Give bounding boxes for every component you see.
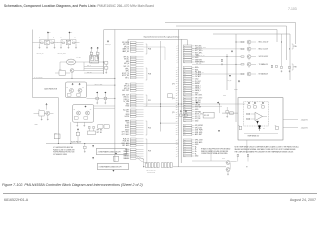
svg-text:USB_D+: USB_D+ xyxy=(123,97,129,99)
svg-text:41: 41 xyxy=(184,146,186,148)
svg-text:14: 14 xyxy=(184,78,186,80)
svg-text:UNSW_B+: UNSW_B+ xyxy=(105,44,111,46)
transistor cell Q1 xyxy=(47,32,49,34)
svg-text:USB_D-: USB_D- xyxy=(124,99,130,101)
wires out of temp box xyxy=(283,119,298,121)
svg-text:43: 43 xyxy=(176,151,178,153)
svg-text:28: 28 xyxy=(176,111,178,113)
svg-text:37: 37 xyxy=(176,134,178,136)
svg-text:1: 1 xyxy=(176,46,177,48)
svg-text:15: 15 xyxy=(176,81,178,83)
svg-text:Q8: Q8 xyxy=(74,109,76,111)
svg-text:Q6: Q6 xyxy=(66,86,68,88)
svg-text:23: 23 xyxy=(184,100,186,102)
svg-text:5: 5 xyxy=(176,55,177,57)
svg-text:19: 19 xyxy=(176,90,178,92)
junction dots xyxy=(113,77,116,80)
svg-text:37: 37 xyxy=(184,134,186,136)
svg-text:EXT_SPK+: EXT_SPK+ xyxy=(195,50,203,52)
svg-text:OPT_SEL2: OPT_SEL2 xyxy=(122,134,130,136)
svg-text:IF RADIO IS EQUIPPED WITH OPTI: IF RADIO IS EQUIPPED WITH OPTION BOARD xyxy=(201,148,230,151)
svg-text:38: 38 xyxy=(176,140,178,142)
svg-text:BUS-: BUS- xyxy=(195,69,199,71)
svg-text:VSTBY: VSTBY xyxy=(34,124,38,126)
svg-text:8: 8 xyxy=(184,62,185,64)
svg-text:3: 3 xyxy=(176,50,177,52)
svg-text:SPK_COM: SPK_COM xyxy=(195,140,203,142)
svg-text:38: 38 xyxy=(184,139,186,141)
svg-text:SPI_MOSI2: SPI_MOSI2 xyxy=(195,125,203,127)
svg-text:→ J2-14 TS: → J2-14 TS xyxy=(300,119,308,121)
power flag inside box xyxy=(107,41,109,43)
svg-text:24: 24 xyxy=(184,102,186,104)
svg-text:14: 14 xyxy=(176,79,178,81)
svg-text:RSSI: RSSI xyxy=(126,106,130,108)
svg-text:32: 32 xyxy=(176,121,178,123)
svg-text:EMER: EMER xyxy=(125,120,130,122)
svg-text:13: 13 xyxy=(176,76,178,78)
wire from box1 right xyxy=(87,84,115,86)
svg-text:44: 44 xyxy=(184,153,186,155)
component stack inside box edge xyxy=(105,62,108,65)
svg-text:24: 24 xyxy=(176,102,178,104)
vertical resistors above q pair xyxy=(237,154,238,157)
svg-text:MIC_HI: MIC_HI xyxy=(124,63,130,65)
svg-text:4.7 OHM RESISTORS MUST BE: 4.7 OHM RESISTORS MUST BE xyxy=(53,147,73,149)
svg-text:15: 15 xyxy=(184,81,186,83)
transistor Q11 xyxy=(241,48,244,49)
svg-text:AUD_SW_IN: AUD_SW_IN xyxy=(36,52,43,55)
wire: top bus B xyxy=(176,25,287,27)
svg-text:21: 21 xyxy=(184,95,186,97)
wire into temp box xyxy=(222,112,238,114)
capacitor with flag xyxy=(97,47,99,49)
svg-text:NOTE: TEMP SENSE CIRCUIT COMPO: NOTE: TEMP SENSE CIRCUIT COMPONENTS ARE … xyxy=(235,146,300,149)
svg-text:36: 36 xyxy=(176,132,178,134)
svg-text:28: 28 xyxy=(184,111,186,113)
svg-text:SPI_CLK2: SPI_CLK2 xyxy=(195,127,202,129)
svg-text:← TX DATA 0-5V: ← TX DATA 0-5V xyxy=(257,63,268,66)
svg-text:18: 18 xyxy=(184,88,186,90)
box: right interface section xyxy=(213,33,290,35)
svg-text:P2A: P2A xyxy=(294,45,297,48)
wire stub xyxy=(102,62,104,74)
svg-text:12: 12 xyxy=(184,74,186,76)
svg-text:44: 44 xyxy=(176,153,178,155)
svg-text:34: 34 xyxy=(176,127,178,129)
svg-text:SPI_CS: SPI_CS xyxy=(124,46,129,48)
svg-text:R: R xyxy=(72,40,73,42)
wire from q pair up xyxy=(246,141,248,153)
svg-text:R: R xyxy=(62,40,63,42)
svg-text:SPI_CLK: SPI_CLK xyxy=(123,44,129,46)
transistor Q14 low xyxy=(241,73,244,74)
svg-text:33: 33 xyxy=(176,125,178,127)
box: universal connector section left edge xyxy=(102,30,104,75)
svg-text:R1: R1 xyxy=(247,104,249,106)
svg-text:Expansion/Universal Connector: Expansion/Universal Connector B+ supply … xyxy=(144,36,180,39)
svg-text:42: 42 xyxy=(184,149,186,151)
svg-text:Q7: Q7 xyxy=(82,86,84,88)
svg-text:17: 17 xyxy=(184,85,186,87)
svg-text:P2B: P2B xyxy=(148,74,151,76)
svg-text:GND: GND xyxy=(195,156,199,158)
svg-text:FL1: FL1 xyxy=(54,132,56,134)
svg-text:GND: GND xyxy=(195,57,199,59)
svg-text:← SCI RX 0-3.3V: ← SCI RX 0-3.3V xyxy=(257,56,268,58)
svg-text:P2C: P2C xyxy=(148,100,151,102)
svg-text:P2D: P2D xyxy=(148,128,151,130)
svg-text:SW_B+: SW_B+ xyxy=(124,59,129,61)
option box 2 xyxy=(92,157,94,159)
component with flag mid xyxy=(77,129,79,131)
capacitor below long line xyxy=(84,144,86,147)
mid flags low xyxy=(196,102,198,104)
small resistor mid j2 xyxy=(221,59,222,62)
svg-text:GND: GND xyxy=(223,95,226,97)
svg-text:C: C xyxy=(96,51,97,53)
svg-text:9: 9 xyxy=(184,67,185,69)
svg-text:30: 30 xyxy=(176,116,178,118)
svg-text:17: 17 xyxy=(176,85,178,87)
resistors bottom xyxy=(239,126,242,129)
bracket labels xyxy=(146,44,148,54)
svg-text:VIP_IN2: VIP_IN2 xyxy=(195,102,201,104)
svg-text:45: 45 xyxy=(176,156,178,158)
J2 right vertical wires xyxy=(226,54,228,90)
cap mid right xyxy=(226,107,228,111)
svg-text:2: 2 xyxy=(176,48,177,50)
wires from box2 to rail xyxy=(94,105,115,107)
svg-text:23: 23 xyxy=(176,100,178,102)
svg-text:34: 34 xyxy=(184,127,186,129)
svg-text:BOOT_RX: BOOT_RX xyxy=(122,75,129,77)
ground flag lower right xyxy=(238,80,240,82)
svg-text:5V_USB: 5V_USB xyxy=(123,101,129,103)
svg-text:← BUS+ 3.3-5.0V: ← BUS+ 3.3-5.0V xyxy=(257,42,269,44)
svg-text:22: 22 xyxy=(176,98,178,100)
svg-text:41: 41 xyxy=(176,146,178,148)
svg-text:22: 22 xyxy=(184,97,186,99)
svg-text:BOOT_TX: BOOT_TX xyxy=(122,73,129,75)
bracket P2 top right xyxy=(292,44,294,49)
svg-text:USB_PWR: USB_PWR xyxy=(195,130,203,132)
box: audio PA stage 2 xyxy=(73,105,94,123)
resistors top xyxy=(248,102,250,104)
svg-text:32: 32 xyxy=(184,120,186,122)
svg-text:TP401 TP402: TP401 TP402 xyxy=(147,172,155,174)
svg-text:PA_EN: PA_EN xyxy=(77,56,81,59)
inner dashed box xyxy=(244,102,269,126)
svg-text:R: R xyxy=(51,40,52,42)
svg-text:35: 35 xyxy=(184,130,186,132)
svg-text:P2A: P2A xyxy=(148,48,151,51)
svg-text:16: 16 xyxy=(176,83,178,85)
flags near J2 rail xyxy=(180,110,182,112)
svg-text:OPT_EN: OPT_EN xyxy=(97,132,102,134)
transistor Q5 xyxy=(70,69,74,73)
svg-text:← RX DATA 0-5V: ← RX DATA 0-5V xyxy=(257,73,268,76)
svg-text:40: 40 xyxy=(176,144,178,146)
svg-text:13: 13 xyxy=(184,76,186,78)
svg-text:AUDIO_PA_OUT: AUDIO_PA_OUT xyxy=(71,141,81,144)
svg-text:PA_5V_DRIVE: PA_5V_DRIVE xyxy=(34,75,42,78)
svg-text:JU1 JU2: JU1 JU2 xyxy=(204,115,209,117)
svg-text:9: 9 xyxy=(176,67,177,69)
svg-text:C: C xyxy=(90,51,91,53)
svg-text:R10: R10 xyxy=(59,69,62,71)
svg-text:10: 10 xyxy=(176,69,178,71)
svg-text:AUD_SW_OUT: AUD_SW_OUT xyxy=(57,52,66,55)
svg-text:9V3_SW: 9V3_SW xyxy=(195,107,202,109)
svg-text:18: 18 xyxy=(176,88,178,90)
svg-text:R: R xyxy=(40,40,41,42)
interconnect wires left xyxy=(84,66,103,68)
svg-text:35: 35 xyxy=(176,130,178,132)
svg-text:11: 11 xyxy=(176,72,178,74)
wire: bottom long wire xyxy=(46,143,179,145)
svg-text:36: 36 xyxy=(184,132,186,134)
box: audio PA stage 1 xyxy=(66,82,87,98)
svg-text:PL_DET: PL_DET xyxy=(195,81,201,83)
svg-text:7: 7 xyxy=(176,59,177,61)
svg-text:SQ_DET: SQ_DET xyxy=(123,109,129,111)
svg-text:GP2_IN: GP2_IN xyxy=(124,88,129,90)
wire: top bus C xyxy=(104,29,277,31)
svg-text:GP3_OUT: GP3_OUT xyxy=(122,90,129,92)
connector J2 rails xyxy=(178,30,180,168)
svg-text:MIC_HI: MIC_HI xyxy=(87,65,92,67)
svg-text:C: C xyxy=(61,36,62,38)
transistor Q12 xyxy=(241,56,244,57)
svg-text:IGNITION: IGNITION xyxy=(195,59,202,61)
svg-text:VIP_IN1: VIP_IN1 xyxy=(195,100,201,102)
wire web center xyxy=(160,41,162,132)
svg-text:GND: GND xyxy=(195,144,199,146)
svg-text:11: 11 xyxy=(184,72,186,74)
svg-text:30: 30 xyxy=(184,116,186,118)
svg-text:BUS+: BUS+ xyxy=(195,67,199,69)
svg-text:← BUS- 3.3-5.0V: ← BUS- 3.3-5.0V xyxy=(257,49,268,51)
resistor pack row xyxy=(146,163,148,168)
svg-text:EXT_SPK-: EXT_SPK- xyxy=(195,52,203,54)
svg-text:}P5: }P5 xyxy=(172,112,174,114)
svg-text:4 OHM SPEAKER CONNECTION OPT: 4 OHM SPEAKER CONNECTION OPT xyxy=(98,150,121,153)
svg-text:5V: 5V xyxy=(49,32,51,34)
svg-text:B+: B+ xyxy=(195,151,197,153)
svg-text:D2: D2 xyxy=(263,127,265,129)
svg-text:C: C xyxy=(39,36,40,38)
svg-text:P2E: P2E xyxy=(148,151,151,153)
svg-text:6: 6 xyxy=(176,57,177,59)
box right of flags xyxy=(203,112,214,118)
svg-text:20: 20 xyxy=(184,92,186,94)
wire loop below oval xyxy=(59,62,61,70)
svg-text:GND: GND xyxy=(195,121,199,123)
svg-text:16: 16 xyxy=(184,83,186,85)
svg-text:20: 20 xyxy=(176,92,178,94)
box on left rail xyxy=(54,134,60,139)
svg-text:IGN: IGN xyxy=(127,123,130,125)
svg-text:3: 3 xyxy=(184,50,185,52)
svg-text:Q9: Q9 xyxy=(90,109,92,111)
svg-text:SCI_TX: SCI_TX xyxy=(195,116,200,118)
box pair top xyxy=(98,125,103,128)
wire: top bus A xyxy=(165,22,296,24)
box: temperature sense xyxy=(238,98,283,140)
regulator sub-circuit U4 xyxy=(46,104,48,106)
wire to resistor packs xyxy=(143,159,145,167)
wires around q pair xyxy=(192,160,226,162)
svg-text:SPI_MOSI: SPI_MOSI xyxy=(122,42,130,44)
svg-text:FLAT_TX: FLAT_TX xyxy=(123,137,129,140)
svg-text:4: 4 xyxy=(184,52,185,54)
svg-text:GP4_OUT: GP4_OUT xyxy=(122,94,129,96)
svg-text:SCI_TXD: SCI_TXD xyxy=(196,63,201,65)
svg-text:26: 26 xyxy=(184,107,186,109)
svg-text:Q410: Q410 xyxy=(222,158,225,160)
svg-text:R4: R4 xyxy=(238,125,240,127)
svg-text:GND2: GND2 xyxy=(125,129,129,131)
transistor Q13 xyxy=(241,64,244,65)
svg-text:25: 25 xyxy=(184,104,186,106)
svg-text:GND: GND xyxy=(126,103,130,105)
svg-text:31: 31 xyxy=(184,118,186,120)
resistor block R10 xyxy=(59,71,66,76)
small component between option boxes xyxy=(115,153,117,155)
pull resistors right xyxy=(271,65,272,68)
svg-text:29: 29 xyxy=(184,114,186,116)
svg-text:19: 19 xyxy=(184,90,186,92)
wire: left rail xyxy=(32,30,34,98)
svg-text:33: 33 xyxy=(184,125,186,127)
svg-text:DGND: DGND xyxy=(234,89,238,91)
svg-text:470 470 470 470: 470 470 470 470 xyxy=(146,169,156,171)
svg-text:4: 4 xyxy=(176,52,177,54)
svg-text:USB_GND: USB_GND xyxy=(195,132,203,134)
svg-text:MIC_LO: MIC_LO xyxy=(124,66,130,68)
svg-text:7: 7 xyxy=(184,59,185,61)
svg-text:SW_B+: SW_B+ xyxy=(228,80,233,82)
svg-text:10: 10 xyxy=(184,69,186,71)
svg-text:B-: B- xyxy=(195,153,197,155)
svg-text:GND: GND xyxy=(195,92,199,94)
svg-text:RESET: RESET xyxy=(195,83,200,85)
svg-text:R5: R5 xyxy=(275,125,277,127)
svg-text:27: 27 xyxy=(184,109,186,111)
connector P1 rail xyxy=(114,30,116,163)
transistor cell Q2 xyxy=(69,32,71,34)
svg-text:R3: R3 xyxy=(261,104,263,106)
wire: PA drive line xyxy=(33,77,115,79)
svg-text:40: 40 xyxy=(184,144,186,146)
svg-text:BOOT_CTL: BOOT_CTL xyxy=(195,114,203,116)
option box 1 xyxy=(92,145,94,147)
vertical resistor pair xyxy=(89,126,90,129)
wires below box2 xyxy=(76,122,78,124)
svg-text:VIP_1: VIP_1 xyxy=(125,77,129,79)
transistor Q21 xyxy=(226,168,230,172)
svg-text:31: 31 xyxy=(176,118,178,120)
svg-text:OPT_SEL1: OPT_SEL1 xyxy=(122,132,130,134)
svg-text:SCI_RX: SCI_RX xyxy=(195,118,200,120)
svg-text:43: 43 xyxy=(184,151,186,153)
capacitor C10 xyxy=(96,92,98,94)
svg-text:21: 21 xyxy=(176,95,178,97)
svg-text:42: 42 xyxy=(176,149,178,151)
capacitor C11 xyxy=(105,92,107,94)
svg-text:}P3: }P3 xyxy=(172,84,174,86)
svg-text:FOR PROPER ESD PROTECTION: FOR PROPER ESD PROTECTION xyxy=(53,152,74,154)
small box mid xyxy=(168,94,173,98)
svg-text:VIP_OUT1: VIP_OUT1 xyxy=(195,95,202,97)
svg-text:39: 39 xyxy=(184,142,186,144)
svg-text:C: C xyxy=(75,36,76,38)
svg-text:5V_SW: 5V_SW xyxy=(195,104,201,106)
svg-text:GND: GND xyxy=(126,61,130,63)
diode D2 xyxy=(258,125,261,131)
svg-text:45: 45 xyxy=(184,156,186,158)
svg-text:26: 26 xyxy=(176,107,178,109)
flag on J2 right xyxy=(229,75,231,77)
svg-text:8 OHM SPEAKER CONNECTION OPT: 8 OHM SPEAKER CONNECTION OPT xyxy=(99,165,122,168)
transistor Q10 xyxy=(241,41,244,42)
svg-text:AUDIO PA SECTION: AUDIO PA SECTION xyxy=(45,87,58,90)
svg-text:→ J2-15 TS: → J2-15 TS xyxy=(300,127,308,129)
capacitor with flag xyxy=(91,47,93,49)
svg-text:R2: R2 xyxy=(253,104,255,106)
diode D1 xyxy=(256,121,258,125)
svg-text:VIP_OUT2: VIP_OUT2 xyxy=(195,98,202,100)
svg-text:CSQ: CSQ xyxy=(195,79,199,81)
box: dual IC U1 xyxy=(90,56,99,64)
svg-text:12: 12 xyxy=(176,74,178,76)
svg-text:OPT_SEL: OPT_SEL xyxy=(97,130,103,132)
svg-text:2: 2 xyxy=(184,48,185,50)
svg-text:6: 6 xyxy=(184,57,185,59)
svg-text:GP1_IN: GP1_IN xyxy=(124,86,129,88)
svg-text:VIP_2: VIP_2 xyxy=(125,83,129,85)
op-amp U10 xyxy=(255,112,263,120)
svg-text:MON: MON xyxy=(126,114,130,116)
svg-text:27: 27 xyxy=(176,109,178,111)
svg-text:29: 29 xyxy=(176,114,178,116)
svg-text:SPK-: SPK- xyxy=(126,71,130,73)
svg-text:5V: 5V xyxy=(71,32,73,34)
svg-text:MIC_LO: MIC_LO xyxy=(87,71,91,73)
svg-text:}P4: }P4 xyxy=(172,98,174,100)
svg-text:P2B: P2B xyxy=(294,67,297,69)
svg-text:8: 8 xyxy=(176,62,177,64)
svg-text:5: 5 xyxy=(184,55,185,57)
svg-text:AUD_PA_OUT: AUD_PA_OUT xyxy=(94,82,102,85)
gate U2 (oval) xyxy=(66,59,75,65)
svg-text:PTT: PTT xyxy=(126,112,129,114)
svg-text:TEMP SENSE CKT: TEMP SENSE CKT xyxy=(248,136,260,138)
box: pin header inner box xyxy=(128,39,187,41)
svg-text:C: C xyxy=(53,36,54,38)
svg-text:GND3: GND3 xyxy=(125,149,129,151)
svg-text:SPK+: SPK+ xyxy=(125,68,129,70)
svg-text:HOOK: HOOK xyxy=(125,116,129,118)
svg-text:OPT_B+: OPT_B+ xyxy=(123,56,129,58)
svg-text:GND: GND xyxy=(195,109,199,111)
node: left rail junction xyxy=(33,42,37,44)
dark flag below option box 2 xyxy=(113,170,115,172)
svg-text:1: 1 xyxy=(184,45,185,47)
